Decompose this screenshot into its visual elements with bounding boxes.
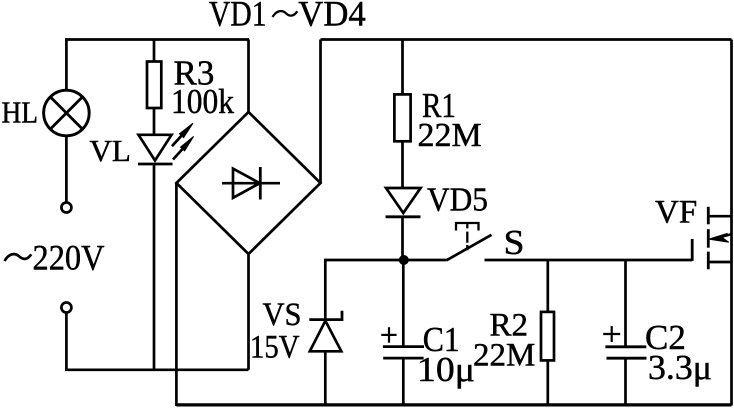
wire R2 stem from switch wire [546,260,549,312]
svg-text:VD4: VD4 [298,0,366,33]
switch S blade [447,235,492,260]
wire R3 to VL [153,108,156,136]
wire R3 stem [153,40,156,62]
wire switch right to gate [485,259,693,262]
svg-text:10μ: 10μ [417,350,475,389]
zener VS [309,311,342,352]
svg-text:VF: VF [655,195,697,231]
wire top-right rail [321,38,732,41]
wire R1 to VD5 [401,141,404,188]
wire VS down to bottom rail [324,351,327,406]
LED VL arrows [172,123,194,159]
bridge inner diode [222,167,280,200]
MOSFET VF channel segments [707,207,710,269]
wire R2 down to bottom rail [546,360,549,405]
svg-text:15V: 15V [250,330,300,366]
wire lamp bottom lead [65,136,68,202]
resistor R1 [394,94,410,141]
wire C1 down to bottom rail [402,358,405,406]
svg-text:VD5: VD5 [427,182,488,219]
svg-text:VD1: VD1 [209,0,267,33]
svg-text:220V: 220V [33,238,105,278]
wire lamp stem from rail [65,40,68,92]
MOSFET VF gate bar [691,239,694,261]
wire right rail [730,40,733,406]
resistor R2 [541,312,554,361]
capacitor C1 [383,347,424,359]
label ~220V [5,238,105,278]
svg-text:S: S [504,223,525,262]
diode VD5 [386,188,421,217]
wire C2 stem from switch wire [624,260,627,347]
wire bridge right lead up to rail [319,40,322,184]
wire C2 down to bottom rail [624,358,627,406]
C2 plus sign [603,326,620,342]
wire VL down to AC wire [153,164,156,370]
svg-text:22M: 22M [418,117,482,154]
lamp HL [44,90,90,136]
wire node to left and down to VS [325,260,404,320]
terminal upper (open circle) [61,203,71,213]
wire bridge top lead [247,40,250,114]
wire node to switch [404,259,447,262]
svg-text:3.3μ: 3.3μ [648,348,712,387]
LED VL [138,135,173,164]
MOSFET VF body arrow [709,233,732,242]
svg-text:VS: VS [263,297,302,333]
wire below lower terminal [65,313,68,371]
svg-text:HL: HL [2,96,39,130]
wire C1 stem from node [402,260,405,346]
svg-text:100k: 100k [171,82,234,121]
wire top-left rail [65,38,249,41]
svg-text:22M: 22M [473,338,535,374]
label VD1~VD4 [209,0,366,33]
node junction dot [399,255,409,265]
wire bottom rail [176,403,731,406]
bridge rectifier VD1~VD4 diamond [176,112,320,254]
wire R1 stem [401,40,404,95]
terminal lower (open circle) [61,303,71,313]
capacitor C2 [605,347,646,358]
wire AC neutral horizontal [65,368,248,371]
wire VD5 to node [401,217,404,261]
svg-text:VL: VL [90,133,131,168]
switch actuator dashed stem [466,223,468,250]
wire bridge left lead down to bottom rail [175,184,178,407]
MOSFET VF drain connection [708,215,731,218]
wire bridge bottom lead down to AC wire [247,254,250,370]
resistor R3 [147,62,161,109]
switch pushbutton actuator [456,223,479,231]
MOSFET VF source connection [708,261,731,264]
C1 plus sign [381,327,396,343]
